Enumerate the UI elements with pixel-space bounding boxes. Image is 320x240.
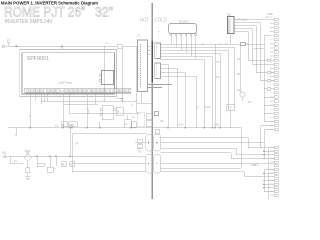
svg-text:2E: 2E (62, 163, 65, 166)
svg-text:4 BL: 4 BL (214, 123, 220, 127)
svg-text:T1: T1 (137, 34, 141, 38)
svg-text:1C5: 1C5 (205, 105, 210, 109)
svg-text:F1: F1 (14, 160, 17, 163)
svg-text:¿F: ¿F (75, 141, 79, 145)
svg-text:32: 32 (132, 117, 135, 120)
svg-text:×: × (158, 30, 160, 34)
svg-text:1N..: 1N.. (237, 89, 242, 92)
svg-text:COLD: COLD (155, 18, 168, 24)
svg-text:2K..: 2K.. (237, 73, 242, 76)
svg-text:⊡2: ⊡2 (160, 119, 164, 123)
svg-text:ROME PJT 26”: ROME PJT 26” (4, 5, 85, 20)
svg-text:7C…: 7C… (216, 60, 222, 64)
svg-text:SPF9001: SPF9001 (27, 56, 49, 62)
svg-text:⊟: ⊟ (117, 111, 119, 114)
svg-text:C: C (126, 123, 128, 126)
svg-text:F?: F? (7, 39, 11, 43)
svg-text:.: . (125, 40, 126, 43)
svg-text:CN8: CN8 (267, 12, 273, 16)
svg-text:∑f: ∑f (196, 105, 199, 109)
svg-text:1C…: 1C… (216, 75, 222, 79)
svg-text:4L: 4L (70, 163, 73, 166)
svg-text:INVERTER SMPS 24V: INVERTER SMPS 24V (5, 19, 53, 25)
svg-text:GN12 P: GN12 P (265, 17, 273, 19)
svg-text:ACL: ACL (2, 152, 7, 155)
svg-text:RL201—: RL201— (179, 20, 191, 24)
svg-text:△≈℞™ssa: △≈℞™ssa (58, 81, 73, 85)
svg-text:32”: 32” (95, 5, 113, 20)
svg-text:BD1: BD1 (25, 149, 31, 153)
svg-text:⊻: ⊻ (131, 104, 133, 107)
svg-text:NER: NER (69, 124, 74, 127)
svg-text:2: 2 (87, 107, 89, 111)
svg-text:7E: 7E (138, 151, 141, 154)
svg-text:+: + (55, 168, 57, 171)
svg-text:M: M (62, 124, 64, 127)
svg-text:T…: T… (29, 114, 34, 118)
svg-text:1C…: 1C… (248, 100, 254, 104)
svg-text:C..: C.. (106, 41, 110, 45)
svg-text:1N..: 1N.. (237, 58, 242, 61)
svg-text:CN8.5: CN8.5 (251, 163, 259, 167)
svg-text:1C:: 1C: (55, 124, 59, 128)
svg-text:HOT: HOT (140, 18, 149, 24)
svg-text:(2.4): (2.4) (178, 123, 183, 127)
svg-text:7.5: 7.5 (228, 106, 232, 110)
